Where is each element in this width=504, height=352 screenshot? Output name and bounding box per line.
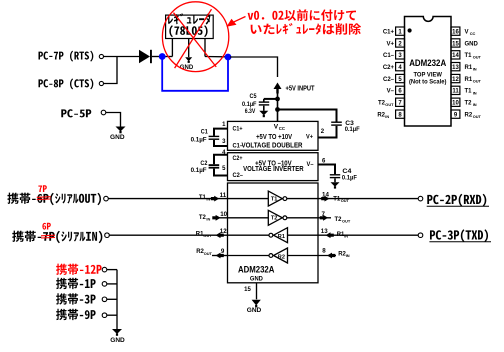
annotation red leader arrow xyxy=(233,17,246,23)
svg-text:OUT: OUT xyxy=(473,114,482,119)
svg-text:C2+: C2+ xyxy=(383,65,395,71)
node keitai-6P serial out label xyxy=(7,193,101,206)
DIP pin 1 box xyxy=(396,27,405,35)
diode D1 xyxy=(139,50,150,63)
svg-text:13: 13 xyxy=(452,65,459,71)
annotation red circle-X over regulator xyxy=(162,2,228,72)
svg-text:10: 10 xyxy=(452,101,459,107)
svg-text:3: 3 xyxy=(222,139,226,145)
terminal PC-2P xyxy=(418,196,423,201)
wire PC-5P to gnd xyxy=(106,113,121,127)
svg-text:R2: R2 xyxy=(278,255,285,261)
svg-text:T2: T2 xyxy=(465,101,473,107)
wire stub pin 9 xyxy=(212,255,228,257)
svg-text:C2–: C2– xyxy=(383,77,395,83)
wire blue bypass xyxy=(162,58,228,91)
wire pin 13 to PC-3P xyxy=(318,234,418,236)
wire regulator output to node xyxy=(205,56,225,58)
arrow out of pin 7 xyxy=(320,215,328,221)
svg-text:+5V INPUT: +5V INPUT xyxy=(286,86,316,93)
annotation red 6P xyxy=(42,223,50,230)
svg-text:OUT: OUT xyxy=(203,233,212,238)
svg-text:8: 8 xyxy=(322,248,326,255)
svg-text:ADM232A: ADM232A xyxy=(238,264,275,275)
ground C5 xyxy=(259,111,268,116)
svg-text:V+: V+ xyxy=(386,41,394,47)
svg-text:OUT: OUT xyxy=(341,198,350,203)
wire PC-7P to diode xyxy=(104,56,140,58)
svg-text:ADM232A: ADM232A xyxy=(409,58,446,69)
wire V- pin 6 to C4 xyxy=(318,165,335,175)
capacitor C5 xyxy=(263,99,265,102)
annotation strike 7P xyxy=(41,234,55,237)
arrow into pin 10 xyxy=(212,215,220,221)
svg-text:9: 9 xyxy=(221,248,225,255)
svg-text:OUT: OUT xyxy=(473,55,482,60)
regulator label katakana xyxy=(168,13,210,24)
svg-text:T2: T2 xyxy=(271,216,278,222)
op-amp/IC U1 doubler section box xyxy=(228,121,319,150)
ground keitai bus xyxy=(112,329,122,334)
svg-text:5: 5 xyxy=(222,166,226,172)
wire pin 15 xyxy=(256,283,258,300)
wire PC-8P riser xyxy=(104,57,118,84)
svg-text:2: 2 xyxy=(398,41,402,47)
svg-text:T1: T1 xyxy=(271,196,278,202)
DIP pin 2 box xyxy=(396,39,405,47)
svg-text:OUT: OUT xyxy=(204,251,213,256)
wire ground bus xyxy=(116,270,118,329)
regulator 78L05 box xyxy=(166,15,214,38)
svg-text:IN: IN xyxy=(473,67,477,72)
svg-text:12: 12 xyxy=(220,228,227,235)
svg-text:R1: R1 xyxy=(465,77,473,83)
DIP pin 3 box xyxy=(396,51,405,59)
DIP pin 7 box xyxy=(396,98,405,106)
svg-text:1: 1 xyxy=(222,122,226,128)
buffer T2 xyxy=(268,210,282,225)
arrow into pin 8 xyxy=(327,253,335,259)
wire R1 row internal xyxy=(228,234,270,236)
capacitor C4 xyxy=(330,174,340,175)
wire +5V vertical into chip xyxy=(277,93,279,122)
svg-text:1: 1 xyxy=(398,29,402,35)
svg-text:0.1µF: 0.1µF xyxy=(345,126,360,133)
node PC-5P label xyxy=(61,109,91,117)
svg-text:V: V xyxy=(465,29,469,35)
wire C2 to pin5 xyxy=(214,169,228,176)
svg-text:C1+: C1+ xyxy=(233,126,243,133)
ground chip xyxy=(252,300,261,306)
svg-text:CC: CC xyxy=(470,31,476,36)
svg-text:IN: IN xyxy=(473,102,477,107)
svg-text:GND: GND xyxy=(250,275,263,282)
arrow out of pin 14 xyxy=(321,196,329,202)
capacitor C3 xyxy=(331,122,342,123)
svg-text:9: 9 xyxy=(454,112,458,118)
svg-text:6: 6 xyxy=(398,89,402,95)
svg-text:12: 12 xyxy=(452,77,459,83)
wire C3 to V+ pin 2 xyxy=(318,126,337,138)
svg-text:13: 13 xyxy=(321,228,328,235)
svg-text:V–: V– xyxy=(387,89,395,95)
svg-text:7: 7 xyxy=(398,101,402,107)
terminal keitai-9P xyxy=(102,313,107,318)
svg-text:R1: R1 xyxy=(278,234,285,240)
node PC-7P (RTS) label xyxy=(38,51,93,62)
terminal keitai-1P xyxy=(102,282,107,287)
svg-text:4: 4 xyxy=(398,65,402,71)
buffer R1 xyxy=(274,228,288,243)
DIP pin 12 box xyxy=(451,74,460,82)
svg-text:R1: R1 xyxy=(465,65,473,71)
svg-text:OUT: OUT xyxy=(473,78,482,83)
node keitai-3P label xyxy=(56,293,96,304)
capacitor C1 xyxy=(209,136,220,137)
svg-text:3: 3 xyxy=(398,53,402,59)
svg-text:GND: GND xyxy=(110,134,125,141)
DIP pin 13 box xyxy=(451,63,460,71)
terminal PC-8P xyxy=(99,81,103,85)
arrow into pin 13 xyxy=(326,232,334,238)
wire C5 branch xyxy=(264,98,278,100)
svg-text:GND: GND xyxy=(110,337,125,344)
annotation strike 6P xyxy=(37,196,51,199)
svg-text:C2+: C2+ xyxy=(233,155,243,162)
wire keitai-6P to pin 11 xyxy=(108,198,227,200)
ground regulator xyxy=(185,57,192,61)
arrow out of pin 9 xyxy=(216,253,224,259)
regulator pin 1 wire xyxy=(171,39,173,57)
junction C5 tap xyxy=(275,97,280,102)
node keitai-1P label xyxy=(56,278,96,289)
svg-text:IN: IN xyxy=(206,217,210,222)
arrow out of pin 12 xyxy=(216,232,224,238)
terminal PC-5P xyxy=(101,110,106,115)
capacitor C2 xyxy=(209,164,220,166)
svg-text:V+: V+ xyxy=(306,134,313,141)
svg-text:C5: C5 xyxy=(250,93,257,100)
wire T2 row internal xyxy=(228,217,269,219)
svg-text:IN: IN xyxy=(385,114,389,119)
annotation red text line1 xyxy=(248,9,356,21)
junction blue node A xyxy=(159,53,166,60)
node keitai-7P serial in label xyxy=(12,231,102,244)
svg-text:0.1µF: 0.1µF xyxy=(342,175,357,182)
svg-text:VOLTAGE INVERTER: VOLTAGE INVERTER xyxy=(243,166,304,173)
IC U1 DIP body xyxy=(405,17,452,127)
svg-text:T2: T2 xyxy=(335,217,343,223)
svg-text:C2–: C2– xyxy=(233,172,244,179)
wire node to +5V drop xyxy=(230,57,278,77)
svg-text:GND: GND xyxy=(465,41,479,47)
node PC-3P (TXD) label xyxy=(430,229,488,242)
wire node to regulator input xyxy=(165,56,172,58)
terminal keitai-3P xyxy=(102,297,107,302)
DIP pin 16 box xyxy=(451,27,460,35)
wire R2 row internal xyxy=(228,255,270,257)
wire C1 to pin3 xyxy=(214,140,228,146)
svg-text:IN: IN xyxy=(344,234,348,239)
svg-text:OUT: OUT xyxy=(342,219,351,224)
svg-text:6: 6 xyxy=(322,158,326,164)
arrow into pin 11 xyxy=(211,196,219,202)
terminal keitai-7P xyxy=(105,233,110,238)
wire stub pin 10 xyxy=(213,217,228,219)
terminal keitai-12P xyxy=(102,267,107,272)
annotation red text line2 xyxy=(251,23,361,35)
IC U1 inverter section box xyxy=(228,153,319,181)
terminal keitai-6P xyxy=(104,196,109,201)
wire keitai-3P xyxy=(107,298,117,300)
svg-text:16: 16 xyxy=(452,29,459,35)
wire keitai-12P xyxy=(107,269,117,271)
wire stub pin 8 xyxy=(318,255,336,257)
regulator pin 3 wire xyxy=(204,39,206,57)
wire stub pin 7 xyxy=(318,217,331,219)
wire to C3 xyxy=(278,110,337,122)
svg-text:T1: T1 xyxy=(465,89,473,95)
power +5V INPUT arrow xyxy=(274,83,282,90)
terminal PC-7P xyxy=(99,54,103,58)
buffer T1 xyxy=(268,191,282,206)
svg-text:GND: GND xyxy=(247,307,262,314)
DIP pin 4 box xyxy=(396,63,405,71)
regulator gnd pin wire xyxy=(188,39,190,58)
svg-text:6.3V: 6.3V xyxy=(245,108,256,115)
DIP pin 11 box xyxy=(451,86,460,94)
svg-text:10: 10 xyxy=(220,211,227,218)
svg-text:7: 7 xyxy=(322,211,326,218)
svg-text:11: 11 xyxy=(220,192,227,199)
DIP pin 8 box xyxy=(396,110,405,118)
svg-text:C1: C1 xyxy=(201,129,208,136)
svg-text:14: 14 xyxy=(322,191,329,198)
svg-text:15: 15 xyxy=(244,287,251,293)
node PC-2P (RXD) label xyxy=(427,194,486,207)
junction V+ rail tap xyxy=(275,107,280,112)
svg-text:14: 14 xyxy=(452,53,459,59)
svg-text:C1+: C1+ xyxy=(383,29,395,35)
wire T1 row internal xyxy=(228,198,269,200)
node PC-8P (CTS) label xyxy=(38,78,93,89)
DIP pin 6 box xyxy=(396,86,405,94)
svg-text:C1–: C1– xyxy=(383,53,395,59)
buffer R2 xyxy=(274,248,288,263)
junction blue node B xyxy=(225,54,232,61)
svg-text:C1–: C1– xyxy=(233,143,244,150)
wire pin4 to C2 xyxy=(214,155,228,165)
svg-text:IN: IN xyxy=(206,197,210,202)
DIP pin 14 box xyxy=(451,51,460,59)
wire pin 14 to PC-2P xyxy=(318,198,418,200)
wire pin1 to C1 xyxy=(214,129,228,136)
DIP pin1 marker xyxy=(408,28,412,32)
svg-text:R2: R2 xyxy=(465,112,473,118)
svg-text:15: 15 xyxy=(452,41,459,47)
svg-text:(Not to Scale): (Not to Scale) xyxy=(409,78,447,85)
svg-text:5: 5 xyxy=(398,77,402,83)
terminal PC-3P xyxy=(418,233,423,238)
svg-text:V–: V– xyxy=(307,161,314,168)
svg-text:OUT: OUT xyxy=(385,102,394,107)
svg-text:8: 8 xyxy=(398,112,402,118)
svg-text:0.1µF: 0.1µF xyxy=(242,101,257,108)
DIP pin 15 box xyxy=(451,39,460,47)
node keitai-12P label red xyxy=(56,264,102,275)
annotation red 7P xyxy=(38,185,46,192)
svg-text:0.1µF: 0.1µF xyxy=(191,136,207,143)
svg-text:C2: C2 xyxy=(200,160,207,167)
IC U1 main body box xyxy=(228,183,319,283)
svg-text:IN: IN xyxy=(346,253,350,258)
wire diode to node xyxy=(152,56,159,58)
DIP pin 9 box xyxy=(451,110,460,118)
svg-text:CC: CC xyxy=(279,126,285,131)
ground C4 xyxy=(331,182,340,187)
ground PC-5P xyxy=(116,127,126,132)
svg-text:VOLTAGE DOUBLER: VOLTAGE DOUBLER xyxy=(242,143,303,150)
node keitai-9P label xyxy=(56,309,96,320)
svg-text:+5V TO +10V: +5V TO +10V xyxy=(256,134,292,141)
DIP pin 5 box xyxy=(396,74,405,82)
svg-text:11: 11 xyxy=(452,89,459,95)
svg-text:2: 2 xyxy=(321,129,325,135)
svg-text:T1: T1 xyxy=(465,53,473,59)
svg-text:0.1µF: 0.1µF xyxy=(191,167,207,174)
DIP pin 10 box xyxy=(451,98,460,106)
wire keitai-1P xyxy=(107,283,117,285)
regulator value (78L05) xyxy=(169,25,207,37)
svg-text:IN: IN xyxy=(473,90,477,95)
wire keitai-7P to pin 12 xyxy=(109,234,227,236)
wire keitai-9P xyxy=(107,314,117,316)
